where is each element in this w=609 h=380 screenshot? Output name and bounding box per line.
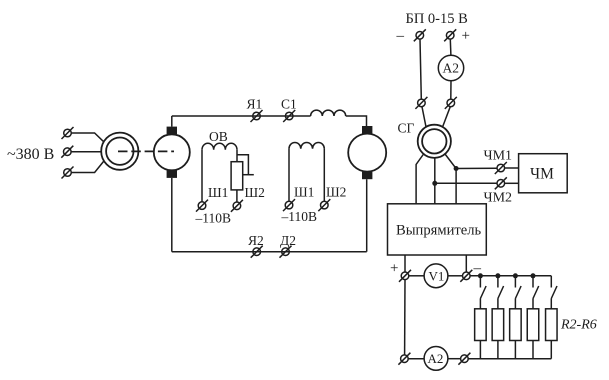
svg-text:ЧМ1: ЧМ1 — [484, 149, 513, 164]
terminal BP plus — [444, 29, 456, 41]
wire SG phase left — [416, 154, 424, 204]
wire R2 bottom — [479, 341, 481, 359]
terminal ЧМ1 — [495, 162, 507, 174]
resistor R5 — [527, 309, 539, 341]
svg-text:Ш1: Ш1 — [208, 185, 228, 200]
terminal Ш2 of OV — [231, 200, 243, 212]
wire R3 bottom — [497, 341, 499, 359]
ammeter A2 (excitation) — [438, 55, 463, 80]
wire phase B — [71, 151, 101, 153]
terminal Д2 — [280, 246, 292, 258]
resistor R3 — [492, 309, 504, 341]
wire OV right lead into rheostat — [236, 150, 238, 162]
wire terminal to V1 — [409, 275, 424, 277]
svg-text:V1: V1 — [429, 268, 445, 283]
brush bottom of M2 — [362, 172, 372, 180]
terminal Ш1 of OV — [196, 200, 208, 212]
terminal Я1 — [251, 110, 263, 122]
terminal A2 left — [398, 353, 410, 365]
wire ЧМ1 to box — [505, 167, 519, 169]
wire load bottom rail — [468, 358, 551, 360]
wire A2 to lower terminal — [450, 81, 452, 99]
terminal supply phase C — [62, 167, 74, 179]
junction load 4 — [531, 273, 536, 278]
wire bus corner to M2 — [346, 116, 367, 126]
wire to ЧМ2 terminal — [435, 182, 497, 184]
wire M top to bus — [171, 116, 173, 127]
wire ЧМ2 to box — [505, 182, 519, 184]
terminal С1 — [283, 110, 295, 122]
wire rectifier minus down — [465, 255, 467, 272]
svg-text:~380 В: ~380 В — [7, 146, 54, 163]
switch S5 — [551, 276, 557, 309]
wire plus terminal down — [404, 280, 406, 355]
wire BP minus down — [420, 39, 421, 99]
svg-text:–110В: –110В — [195, 211, 232, 226]
wire terminal to SG left — [422, 107, 426, 127]
wire M2 bottom to bus — [366, 179, 368, 252]
svg-text:Выпрямитель: Выпрямитель — [396, 223, 482, 239]
terminal BP minus — [414, 29, 426, 41]
wire phase A — [72, 133, 104, 142]
rheostat tap wire — [237, 155, 248, 175]
wire BP plus to A2 — [449, 39, 452, 55]
wire R5 bottom — [532, 341, 534, 359]
shaft coupling dashed — [118, 150, 174, 152]
svg-text:Д2: Д2 — [280, 233, 296, 248]
svg-text:Я2: Я2 — [248, 233, 264, 248]
wire OV left lead — [201, 150, 203, 202]
switch S4 — [533, 276, 539, 309]
svg-text:Ш2: Ш2 — [326, 185, 346, 200]
svg-text:ЧМ2: ЧМ2 — [484, 191, 513, 206]
wire to ЧМ1 terminal — [456, 167, 497, 169]
svg-text:–: – — [396, 28, 405, 44]
svg-text:–110В: –110В — [281, 209, 318, 224]
terminal Ш1 of winding2 — [283, 199, 295, 211]
brush bottom of M — [167, 170, 177, 178]
rectifier box — [388, 204, 487, 255]
terminal A2 right — [458, 353, 470, 365]
wire load top rail — [470, 275, 551, 277]
wire rectifier plus down — [404, 255, 406, 272]
wire SG phase right — [445, 154, 456, 204]
junction load 1 — [478, 273, 483, 278]
wire R4 bottom — [514, 341, 516, 359]
terminal V1 right — [460, 270, 472, 282]
svg-text:R2-R6: R2-R6 — [560, 318, 597, 333]
svg-text:СГ: СГ — [398, 121, 415, 136]
svg-text:ЧМ: ЧМ — [530, 166, 554, 183]
svg-text:С1: С1 — [281, 97, 297, 112]
wire top bus — [172, 115, 311, 117]
field winding OV coil — [202, 143, 237, 150]
wire winding2 right lead — [323, 149, 325, 202]
terminal supply phase B — [61, 146, 73, 158]
brush top of M2 — [362, 126, 372, 134]
DC motor M (armature circle) — [154, 134, 190, 170]
switch S2 — [498, 276, 504, 309]
svg-text:А2: А2 — [428, 351, 444, 366]
frequency meter ЧМ box — [519, 154, 568, 193]
terminal Я2 — [251, 246, 263, 258]
svg-text:БП 0-15 В: БП 0-15 В — [406, 11, 468, 27]
svg-text:ОВ: ОВ — [209, 129, 228, 144]
resistor R2 — [475, 309, 487, 341]
wire M bottom to bus — [171, 178, 173, 252]
svg-text:+: + — [390, 261, 398, 277]
terminal V1 left — [399, 270, 411, 282]
wire phase C — [72, 161, 104, 173]
DC motor M2 armature circle — [348, 134, 386, 172]
brush top of M — [167, 127, 177, 135]
wire winding2 left lead — [288, 149, 290, 202]
switch S3 — [515, 276, 521, 309]
asynchronous motor AD — [101, 133, 138, 170]
svg-text:Ш1: Ш1 — [294, 185, 314, 200]
voltmeter V1 — [424, 264, 448, 288]
wire SG phase middle — [434, 158, 436, 204]
terminal SG excitation left — [415, 97, 427, 109]
terminal Ш2 of winding2 — [318, 199, 330, 211]
rheostat body — [231, 162, 243, 190]
junction load 3 — [513, 273, 518, 278]
resistor R4 — [510, 309, 522, 341]
svg-text:Я1: Я1 — [247, 97, 263, 112]
svg-text:А2: А2 — [443, 61, 460, 76]
junction ЧМ2 — [432, 181, 437, 186]
wire A2 left lead — [408, 358, 424, 360]
wire bottom bus — [172, 251, 367, 253]
wire rheostat bottom lead — [236, 190, 238, 202]
inductor on top bus — [311, 110, 346, 116]
junction load 2 — [495, 273, 500, 278]
terminal ЧМ2 — [495, 177, 507, 189]
terminal supply phase A — [62, 127, 74, 139]
junction ЧМ1 — [454, 166, 459, 171]
svg-text:Ш2: Ш2 — [245, 185, 265, 200]
resistor R6 — [546, 309, 558, 341]
wire R6 bottom — [550, 341, 552, 359]
rheostat slider bar — [243, 174, 254, 176]
terminal SG excitation right — [445, 97, 457, 109]
switch S1 — [480, 276, 486, 309]
ammeter A2 (load) — [424, 347, 448, 371]
wire V1 to minus terminal — [448, 275, 462, 277]
wire A2 right lead — [448, 358, 461, 360]
field winding 2 coil — [289, 142, 324, 148]
svg-text:+: + — [462, 28, 470, 44]
synchronous generator SG — [418, 125, 451, 158]
wire terminal to SG right — [443, 107, 451, 127]
